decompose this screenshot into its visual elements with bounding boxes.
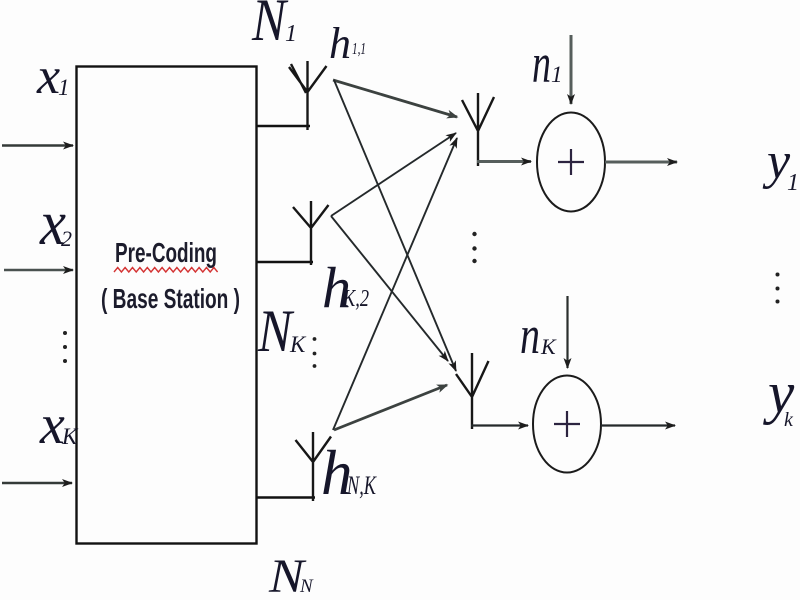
- svg-text:K: K: [289, 332, 307, 357]
- svg-text:2: 2: [61, 226, 72, 251]
- svg-text:1: 1: [58, 75, 70, 100]
- svg-text:K: K: [61, 424, 79, 449]
- svg-text:1: 1: [551, 62, 563, 87]
- rx antenna 1: [462, 93, 494, 166]
- plus sign adder1: [558, 149, 584, 175]
- tx antenna 1: [289, 61, 327, 130]
- red wavy spellcheck underline: [114, 268, 218, 273]
- tx antenna 1 feed wire: [257, 125, 310, 127]
- svg-text:1: 1: [787, 170, 799, 196]
- pre-coding base station box: [77, 67, 257, 544]
- svg-text:K: K: [540, 334, 557, 359]
- channel line tx3->rx2: [334, 385, 447, 430]
- svg-text:n: n: [520, 305, 540, 365]
- channel line tx2->rx2: [331, 216, 448, 361]
- vertical dots between rx antennas: [472, 232, 476, 236]
- input arrow x1: [2, 144, 73, 146]
- svg-text:n: n: [532, 33, 551, 95]
- tx antenna 2 feed wire: [257, 261, 313, 263]
- tx antenna 3 feed wire: [257, 496, 315, 498]
- input arrow xK: [2, 482, 72, 484]
- adder U2 circle: [533, 376, 601, 473]
- svg-text:N: N: [251, 0, 288, 53]
- channel line h1,1 tx1->rx1: [333, 80, 457, 117]
- svg-text:h: h: [329, 19, 351, 68]
- plus sign adder2: [554, 411, 580, 437]
- noise arrow n1: [570, 35, 573, 104]
- output arrow y1: [605, 161, 677, 164]
- dots right of NK: [313, 337, 317, 341]
- svg-text:1,1: 1,1: [352, 39, 366, 58]
- rx2 to adder2 wire arrow: [471, 424, 528, 426]
- svg-text:x: x: [36, 48, 60, 105]
- input arrow x2: [4, 269, 73, 272]
- tx antenna 2: [293, 201, 329, 265]
- svg-text:Pre-Coding: Pre-Coding: [115, 237, 217, 268]
- channel line tx3->rx1: [333, 138, 457, 430]
- rx antenna 2: [456, 353, 489, 429]
- svg-text:( Base Station ): ( Base Station ): [101, 283, 240, 314]
- rx1 to adder1 wire arrow: [477, 160, 531, 163]
- adder U1 circle: [537, 113, 605, 212]
- noise arrow nK: [566, 296, 568, 368]
- channel line tx2->rx1: [331, 133, 456, 216]
- svg-text:k: k: [784, 409, 794, 431]
- svg-text:1: 1: [285, 21, 297, 47]
- channel line tx1->rx2: [334, 80, 456, 371]
- svg-text:N: N: [299, 576, 314, 597]
- svg-text:N,K: N,K: [346, 471, 377, 500]
- svg-text:K,2: K,2: [342, 286, 369, 312]
- output arrow yk: [601, 424, 675, 426]
- right vertical dots: [776, 273, 780, 277]
- tx antenna 3: [296, 432, 332, 501]
- left vertical dots: [63, 331, 67, 335]
- svg-text:N: N: [257, 298, 294, 364]
